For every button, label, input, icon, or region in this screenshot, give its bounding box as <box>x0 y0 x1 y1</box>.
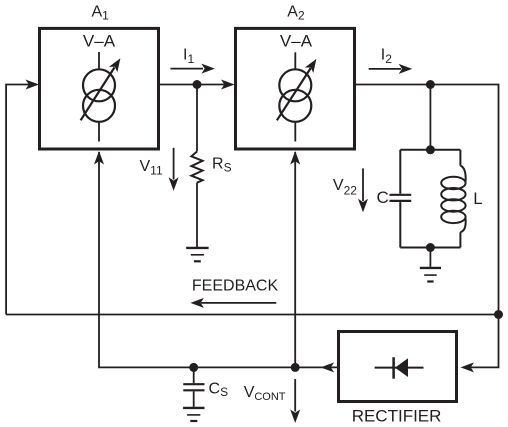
svg-text:VCONT: VCONT <box>244 384 286 403</box>
svg-text:C: C <box>377 188 389 207</box>
svg-text:I1: I1 <box>183 46 194 66</box>
svg-text:I2: I2 <box>381 46 392 66</box>
svg-text:RS: RS <box>212 155 232 174</box>
svg-text:CS: CS <box>209 381 229 400</box>
svg-text:V–A: V–A <box>280 32 313 51</box>
svg-text:A2: A2 <box>287 4 305 23</box>
svg-text:RECTIFIER: RECTIFIER <box>352 407 442 426</box>
svg-text:L: L <box>473 189 482 208</box>
svg-text:V11: V11 <box>140 158 163 177</box>
svg-text:V22: V22 <box>333 177 357 197</box>
svg-text:FEEDBACK: FEEDBACK <box>192 278 279 295</box>
svg-text:V–A: V–A <box>83 32 116 51</box>
svg-text:A1: A1 <box>92 4 110 23</box>
